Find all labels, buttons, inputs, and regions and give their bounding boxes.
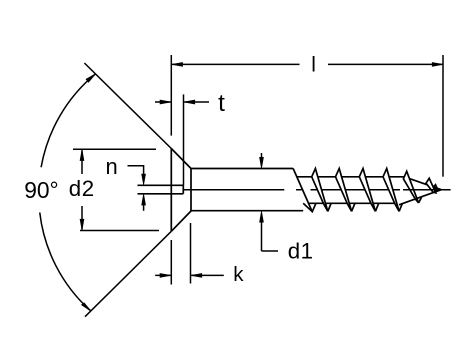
bottom crest right edges	[328, 185, 438, 212]
svg-text:k: k	[233, 263, 244, 286]
thread turn 1	[312, 169, 328, 212]
svg-text:l: l	[311, 54, 316, 77]
dimension k	[155, 223, 224, 285]
screw slot	[138, 185, 184, 194]
thread turn 3	[359, 169, 375, 212]
dimension l	[171, 55, 443, 177]
leader d1 top arrow	[260, 153, 264, 168]
tip dark wedge	[434, 187, 442, 193]
screw shank	[191, 169, 303, 211]
dimension t	[155, 94, 209, 185]
dimension n	[128, 166, 146, 211]
thread turn 2	[336, 169, 352, 212]
90 degree cone construction lines	[84, 63, 171, 317]
svg-text:n: n	[106, 154, 118, 179]
wire centerline axis dashes	[184, 189, 400, 191]
svg-text:d2: d2	[69, 176, 95, 201]
screw head countersunk outline	[171, 149, 191, 232]
thread turn 5 tapered	[403, 171, 418, 203]
90 degree arc	[40, 74, 96, 311]
centerline tail through tip	[403, 189, 451, 191]
svg-text:t: t	[218, 90, 225, 117]
thread blades (white-filled)	[312, 169, 436, 212]
tip cone	[399, 177, 441, 205]
thread run-out wedge at shank bottom	[303, 203, 316, 212]
svg-text:90°: 90°	[24, 177, 58, 203]
thread root lines	[297, 177, 405, 204]
thread turn 6 tapered	[426, 178, 436, 193]
dimension d2	[73, 149, 159, 230]
svg-text:d1: d1	[288, 238, 314, 263]
leader d1	[260, 212, 278, 251]
first thread flank diagonal at shank end	[293, 168, 312, 211]
thread turn 4	[383, 169, 399, 212]
